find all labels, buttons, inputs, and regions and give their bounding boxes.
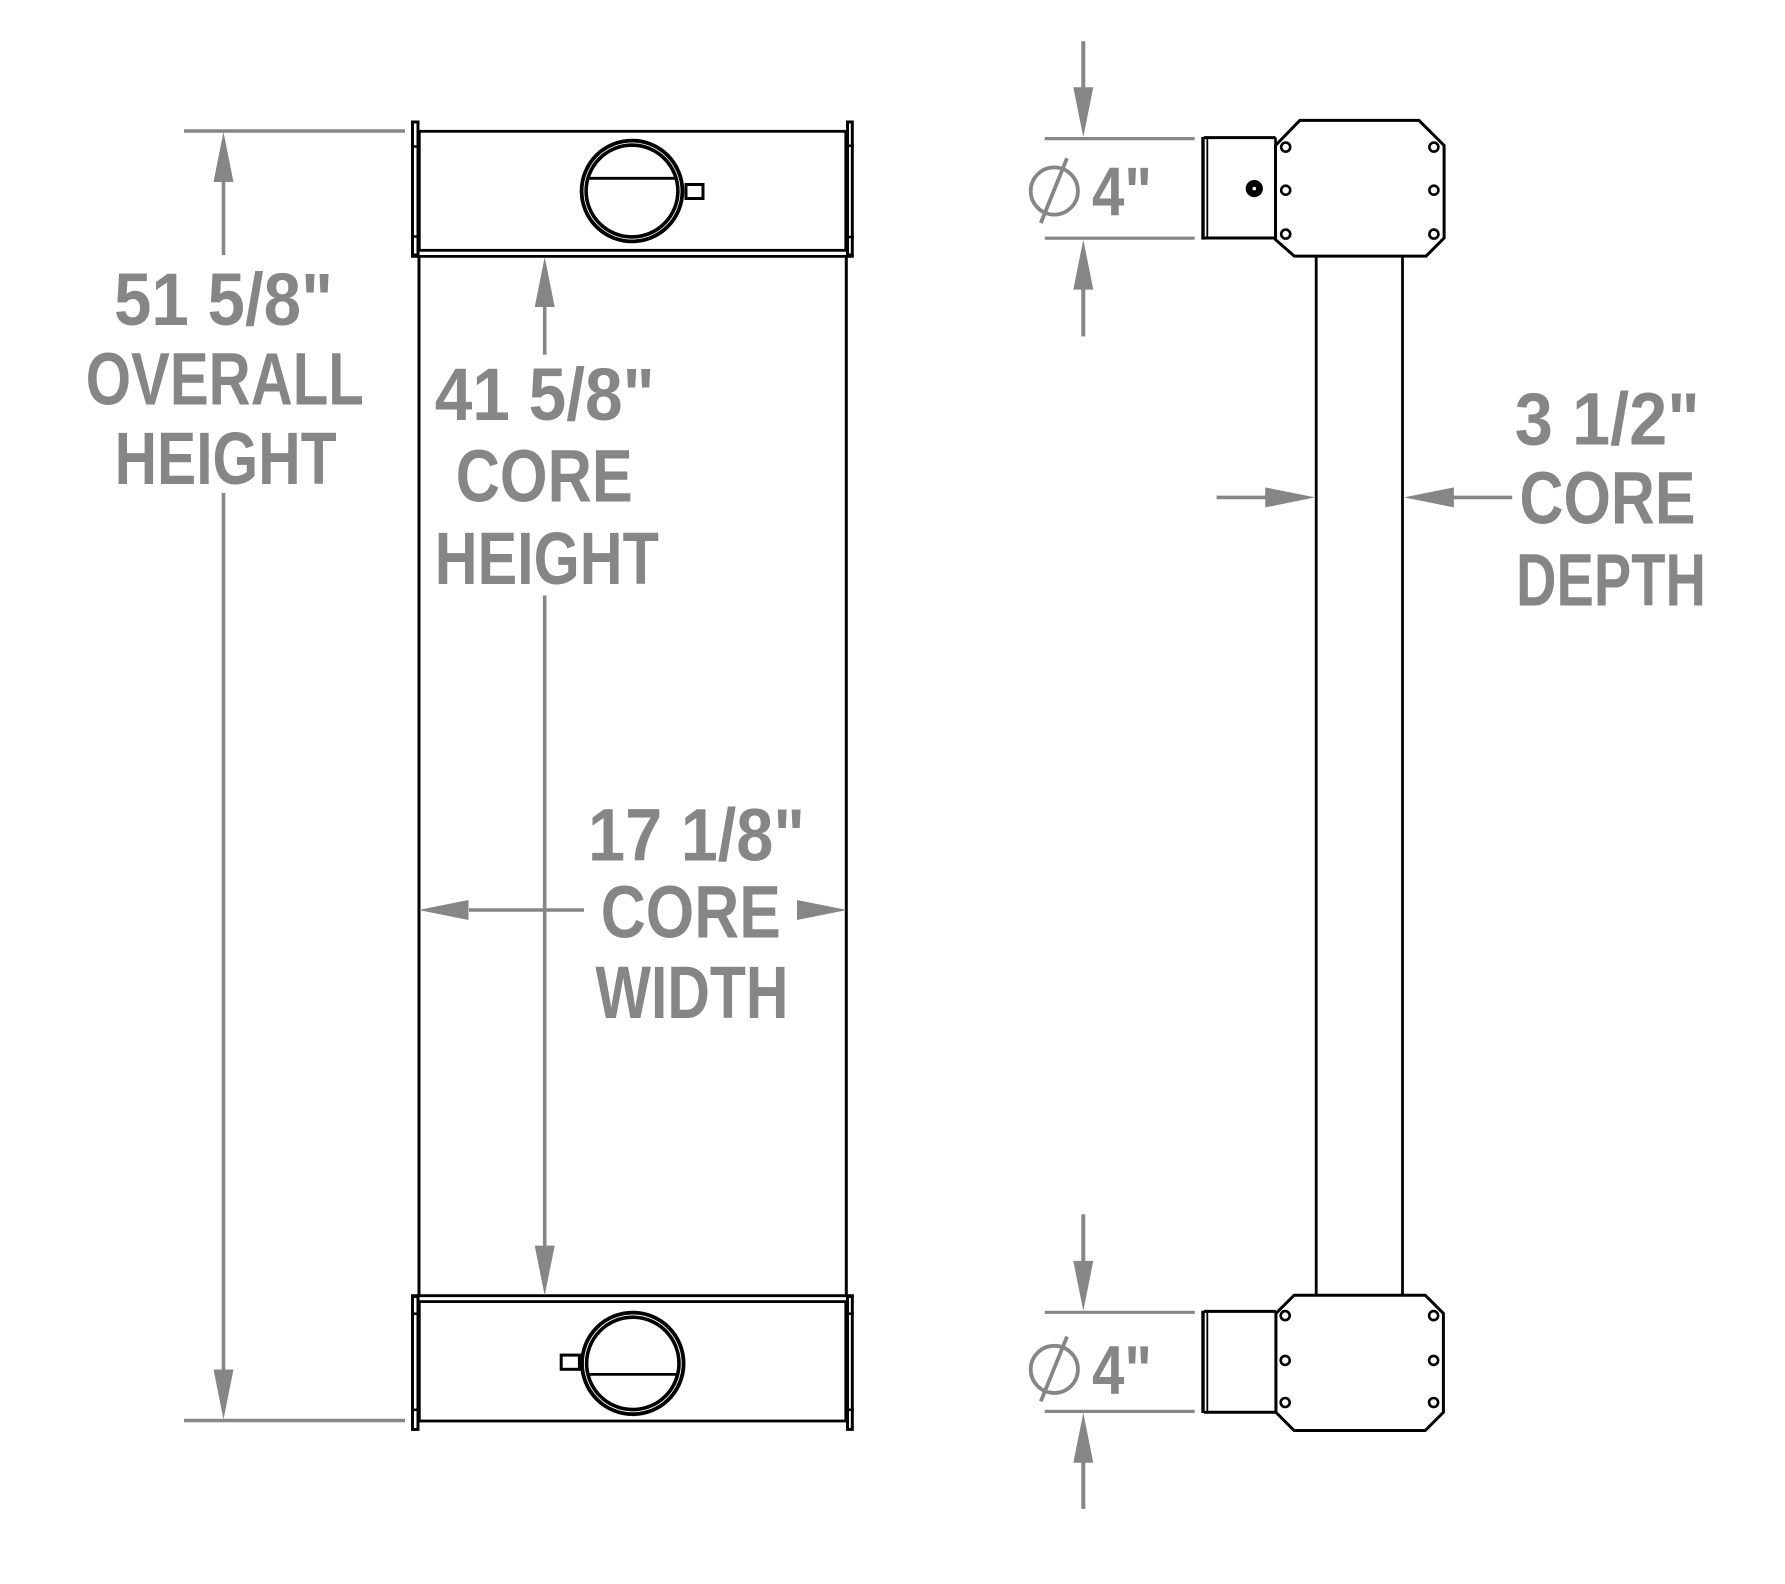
top port tab xyxy=(686,185,703,199)
top tank bracket right xyxy=(846,122,854,255)
bottom octagon bolt holes xyxy=(1281,1311,1438,1407)
svg-text:CORE: CORE xyxy=(601,871,781,954)
svg-text:41 5/8": 41 5/8" xyxy=(435,353,655,436)
overall height dimension xyxy=(184,131,405,1421)
top pipe xyxy=(1203,137,1276,240)
top port outer ring xyxy=(582,141,683,242)
bottom tank header plate xyxy=(411,1294,854,1297)
side core front edge xyxy=(1315,256,1318,1295)
bottom port tab xyxy=(561,1355,579,1369)
top port diameter dimension xyxy=(1045,41,1195,336)
core width dimension xyxy=(419,900,848,920)
core height label xyxy=(435,353,659,600)
bottom port inner ring xyxy=(587,1317,679,1409)
core height dimension xyxy=(535,257,555,1296)
svg-text:51 5/8": 51 5/8" xyxy=(114,258,333,341)
bottom tank bracket right xyxy=(846,1296,854,1429)
svg-text:4": 4" xyxy=(1092,1332,1152,1409)
top tank body xyxy=(419,131,846,250)
bottom pipe xyxy=(1203,1311,1276,1413)
bottom diameter symbol xyxy=(1031,1337,1078,1402)
bottom port outer ring xyxy=(582,1313,684,1415)
bottom port diameter dimension xyxy=(1045,1214,1195,1509)
core width label xyxy=(588,794,805,1035)
svg-text:OVERALL: OVERALL xyxy=(86,338,364,421)
side core back edge xyxy=(1401,256,1404,1295)
top port inner ring xyxy=(586,145,678,237)
top port chord xyxy=(588,177,677,180)
core right edge xyxy=(845,256,848,1295)
core left edge xyxy=(418,256,421,1295)
top pipe weep hole xyxy=(1246,180,1263,197)
top octagon bolt holes xyxy=(1281,143,1438,239)
svg-text:CORE: CORE xyxy=(1520,457,1696,540)
svg-text:HEIGHT: HEIGHT xyxy=(435,517,659,600)
svg-text:HEIGHT: HEIGHT xyxy=(115,417,337,500)
bottom tank body xyxy=(419,1302,846,1421)
core depth dimension xyxy=(1217,487,1513,507)
svg-text:17 1/8": 17 1/8" xyxy=(588,794,805,877)
bottom tank side octagon xyxy=(1276,1295,1444,1430)
svg-text:CORE: CORE xyxy=(456,435,633,518)
overall height label xyxy=(86,258,364,500)
top diameter symbol xyxy=(1031,158,1078,223)
svg-text:WIDTH: WIDTH xyxy=(595,951,788,1034)
bottom port chord xyxy=(588,1373,677,1376)
svg-text:4": 4" xyxy=(1092,153,1152,230)
top tank bracket left xyxy=(411,122,420,255)
svg-text:DEPTH: DEPTH xyxy=(1516,539,1706,622)
top tank side octagon xyxy=(1276,120,1445,256)
bottom tank bracket left xyxy=(411,1296,420,1429)
svg-text:3 1/2": 3 1/2" xyxy=(1515,378,1700,461)
top tank header plate xyxy=(411,255,854,258)
core depth label xyxy=(1515,378,1706,622)
